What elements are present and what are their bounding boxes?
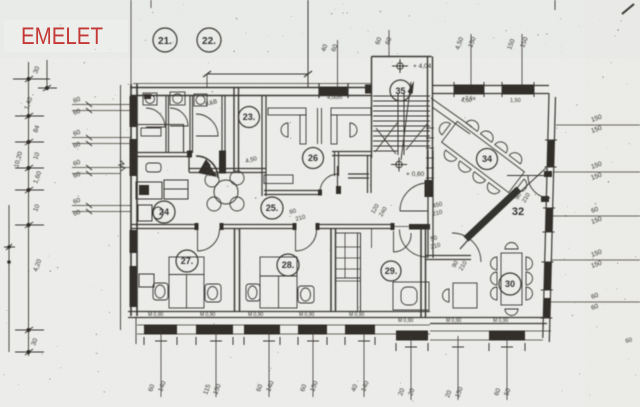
svg-text:M 0,90: M 0,90 <box>398 318 414 324</box>
svg-text:M 0,90: M 0,90 <box>248 312 264 318</box>
svg-text:+ 0,60: + 0,60 <box>406 171 425 178</box>
svg-text:25.: 25. <box>266 203 279 213</box>
svg-text:34: 34 <box>482 154 492 164</box>
svg-text:M 0,90: M 0,90 <box>493 318 509 324</box>
svg-text:M 0,90: M 0,90 <box>299 312 315 318</box>
svg-text:27.: 27. <box>181 256 194 266</box>
svg-text:22.: 22. <box>202 36 216 47</box>
svg-text:M 0,90: M 0,90 <box>200 312 216 318</box>
svg-text:32: 32 <box>512 206 524 218</box>
svg-text:M 0,90: M 0,90 <box>349 312 365 318</box>
svg-text:+ 4,04: + 4,04 <box>413 63 432 70</box>
svg-text:M 0,90: M 0,90 <box>446 318 462 324</box>
svg-text:+2,5x: +2,5x <box>462 96 476 102</box>
svg-text:23.: 23. <box>243 112 256 122</box>
svg-text:M 0,90: M 0,90 <box>148 312 164 318</box>
svg-text:30: 30 <box>505 279 515 289</box>
svg-text:1,50: 1,50 <box>510 98 521 104</box>
svg-text:21.: 21. <box>158 36 172 47</box>
svg-text:28.: 28. <box>282 260 295 270</box>
svg-text:26: 26 <box>308 153 318 163</box>
svg-text:24: 24 <box>159 207 169 217</box>
svg-text:29.: 29. <box>385 266 398 276</box>
svg-text:35: 35 <box>395 86 405 96</box>
svg-text:4,00m: 4,00m <box>327 95 343 101</box>
